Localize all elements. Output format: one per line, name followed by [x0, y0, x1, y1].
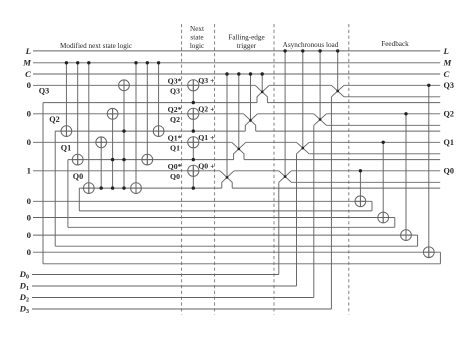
svg-text:Q2: Q2 [444, 110, 454, 119]
wire Q2 row [33, 113, 244, 115]
wire Q1 row [33, 141, 232, 143]
M control wire to XOR on aux-0B at x=88.8 [88, 63, 90, 194]
feedback wire Q3 tap vertical [428, 85, 430, 257]
svg-text:Q3: Q3 [39, 86, 49, 95]
wire return row 2 [55, 245, 417, 247]
control dot on L x=302.8 [301, 49, 304, 52]
wire C [33, 73, 440, 75]
riser wire aux-3B left corner [42, 103, 44, 264]
feedback wire Q2 tap vertical [405, 114, 407, 241]
svg-text:state: state [190, 33, 203, 41]
wire return row 1 [68, 226, 395, 228]
toffoli column for Q3+: vertical wire [123, 80, 125, 188]
XOR target (M right trio) on aux-2B [153, 126, 164, 137]
M control wire (right trio) to XOR on aux-2B at x=158.6 [158, 63, 160, 137]
C control wire for falling-edge swap Q0 [226, 74, 228, 177]
wire aux-3B (feedback line) [43, 102, 257, 104]
section divider dashed 2 [214, 24, 216, 315]
feedback hook Q3 right edge [439, 252, 441, 264]
svg-text:0: 0 [27, 137, 32, 147]
svg-text:M: M [22, 58, 32, 68]
XOR target on Q3 row (next state logic) [119, 80, 130, 91]
svg-text:0: 0 [27, 80, 32, 90]
junction dot falling-edge X Q2 [249, 119, 252, 122]
wire D1 [32, 285, 297, 287]
M control wire to XOR on aux-2B at x=66.4 [65, 63, 67, 137]
junction dot async X Q0 [284, 175, 287, 178]
control dot on C x=262.2 [261, 72, 264, 75]
svg-text:logic: logic [190, 42, 204, 50]
control dot on aux-1B for Q2+ toffoli [111, 158, 114, 161]
svg-text:Q3: Q3 [444, 81, 454, 90]
XOR target (M right trio) on aux-1B [142, 154, 153, 165]
svg-text:L: L [25, 46, 31, 56]
control dot on L x=337.7 [336, 49, 339, 52]
falling-edge swap X gate Q2 [244, 114, 258, 131]
riser wire D3 to async-load X [330, 97, 332, 309]
toffoli column for Q2+: vertical wire [112, 108, 114, 188]
section divider dashed 1 [181, 24, 183, 315]
control dot M x=158.6 [157, 61, 160, 64]
wire aux-0A (async X output) [291, 181, 440, 183]
next-state XOR U3 on Q3 row (big) [192, 80, 194, 103]
control dot M x=66.4 [65, 61, 68, 64]
wire aux-0B (feedback line) [79, 187, 222, 189]
svg-text:Q3*: Q3* [168, 76, 182, 85]
XOR target on Q1 row (next state logic) [96, 137, 107, 148]
C control wire for falling-edge swap Q3 [261, 74, 263, 92]
svg-text:Next: Next [190, 25, 204, 33]
svg-text:Q1: Q1 [61, 143, 71, 152]
riser wire aux-0B left corner [78, 188, 80, 211]
L control wire for async-load swap Q0 [284, 51, 286, 177]
fanout dot on aux-0B below XOR U0 [192, 186, 195, 189]
wire aux-2A (async X output) [326, 124, 440, 126]
M control wire (right trio) to XOR on aux-0B at x=136.0 [135, 63, 137, 194]
control dot on aux-0B for Q1+ toffoli [100, 186, 103, 189]
junction dot async X Q3 [336, 90, 339, 93]
junction dot falling-edge X Q1 [238, 148, 241, 151]
C control wire for falling-edge swap Q1 [238, 74, 240, 149]
wire Q0 row [33, 170, 220, 172]
wire Q3 row [33, 84, 255, 86]
control dot on aux-2B for Q3+ toffoli [122, 129, 125, 132]
svg-text:Q3 +: Q3 + [198, 76, 215, 85]
feedback control dot on Q0 row [359, 169, 362, 172]
feedback XOR target on ancilla 2 row [401, 230, 412, 241]
toffoli column for Q1+: vertical wire [100, 137, 102, 188]
C control wire for falling-edge swap Q2 [250, 74, 252, 120]
svg-text:Q1 +: Q1 + [198, 133, 215, 142]
svg-text:Q1: Q1 [444, 138, 454, 147]
svg-text:M: M [443, 58, 453, 68]
async-load swap X gate Q3 [331, 85, 344, 97]
next-state XOR U1 on Q1 row (big) [192, 137, 194, 160]
feedback wire Q0 tap vertical [359, 171, 361, 207]
wire ancilla 0 row [33, 200, 372, 202]
svg-text:Q2: Q2 [170, 115, 180, 124]
svg-text:1: 1 [27, 166, 31, 176]
control dot on aux-0B for Q3+ toffoli [122, 186, 125, 189]
junction dot falling-edge X Q3 [261, 91, 264, 94]
svg-text:Q0: Q0 [444, 167, 454, 176]
control dot M x=136.0 [134, 61, 137, 64]
L control wire for async-load swap Q3 [337, 51, 339, 91]
XOR target (M right trio) on aux-0B [131, 183, 142, 194]
junction dot falling-edge X Q0 [226, 176, 229, 179]
wire return row 3 [43, 263, 440, 265]
control dot on L x=320.1 [318, 49, 321, 52]
svg-text:Asynchronous load: Asynchronous load [283, 41, 339, 49]
XOR target (M left trio) on aux-2B [61, 126, 72, 137]
wire D0 [32, 274, 279, 276]
L control wire for async-load swap Q2 [319, 51, 321, 120]
svg-text:Q1*: Q1* [168, 133, 182, 142]
riser wire D0 to async-load X [278, 182, 280, 274]
M control wire (right trio) to XOR on aux-1B at x=147.3 [146, 63, 148, 165]
control dot M x=147.3 [146, 61, 149, 64]
feedback control dot on Q1 row [382, 141, 385, 144]
wire aux-1B (feedback line) [68, 159, 234, 161]
riser wire D2 to async-load X [313, 125, 315, 297]
feedback hook Q0 right edge [371, 201, 373, 211]
feedback XOR target on ancilla 1 row [378, 212, 389, 223]
feedback hook Q2 right edge [417, 235, 419, 246]
control dot on aux-1B for Q3+ toffoli [122, 158, 125, 161]
fanout dot on aux-1B below XOR U1 [192, 158, 195, 161]
riser wire aux-1B left corner [67, 160, 69, 228]
svg-text:Q0: Q0 [170, 172, 180, 181]
riser wire D1 to async-load X [296, 154, 298, 286]
XOR target (M left trio) on aux-0B [83, 183, 94, 194]
svg-text:Q3: Q3 [170, 87, 180, 96]
control dot on C x=238.8 [237, 72, 240, 75]
feedback XOR target on ancilla 3 row [423, 247, 434, 258]
falling-edge swap X gate Q1 [232, 142, 246, 159]
svg-text:0: 0 [27, 196, 32, 206]
feedback control dot on Q2 row [404, 112, 407, 115]
svg-text:L: L [443, 46, 449, 56]
section divider dashed 4 [348, 24, 350, 315]
svg-text:Q2 +: Q2 + [198, 105, 215, 114]
junction dot async X Q2 [319, 118, 322, 121]
control dot M x=88.8 [87, 61, 90, 64]
junction dot async X Q1 [302, 147, 305, 150]
XOR target on Q2 row (next state logic) [107, 108, 118, 119]
wire D3 [32, 308, 331, 310]
wire aux-2B (feedback line) [55, 130, 245, 132]
wire ancilla 1 row [33, 217, 395, 219]
svg-text:0: 0 [27, 212, 32, 222]
control dot on L x=285.1 [283, 49, 286, 52]
feedback XOR target on ancilla 0 row [355, 196, 366, 207]
feedback wire Q1 tap vertical [382, 142, 384, 223]
svg-text:Feedback: Feedback [381, 40, 409, 48]
wire return row 0 [79, 210, 372, 212]
control dot on aux-0B for Q2+ toffoli [111, 186, 114, 189]
svg-text:C: C [444, 69, 450, 79]
control dot on C x=227.0 [225, 72, 228, 75]
svg-text:Q2*: Q2* [168, 105, 182, 114]
async-load swap X gate Q2 [314, 114, 327, 126]
M control wire to XOR on aux-1B at x=77.7 [77, 63, 79, 165]
next-state XOR U0 on Q0 row (big) [192, 165, 194, 188]
feedback control dot on Q3 row [427, 84, 430, 87]
svg-text:trigger: trigger [237, 42, 257, 50]
falling-edge swap X gate Q3 [255, 85, 269, 102]
wire D2 [32, 297, 314, 299]
section divider dashed 3 [273, 24, 275, 315]
wire aux-1A (async X output) [309, 153, 440, 155]
wire ancilla 2 row [33, 234, 418, 236]
svg-text:0: 0 [27, 230, 32, 240]
wire aux-3A (async X output) [344, 96, 440, 98]
svg-text:Modified next state logic: Modified next state logic [60, 42, 132, 50]
wire ancilla 3 row [33, 251, 440, 253]
wire L [33, 50, 440, 52]
fanout dot on aux-2B below XOR U2 [192, 129, 195, 132]
svg-text:Q2: Q2 [49, 115, 59, 124]
svg-text:Q0 +: Q0 + [198, 162, 215, 171]
svg-text:Falling-edge: Falling-edge [228, 33, 264, 41]
async-load swap X gate Q1 [297, 142, 310, 154]
svg-text:Q1: Q1 [170, 144, 180, 153]
L control wire for async-load swap Q1 [302, 51, 304, 148]
XOR target (M left trio) on aux-1B [72, 154, 83, 165]
svg-text:Q0*: Q0* [168, 162, 182, 171]
falling-edge swap X gate Q0 [220, 171, 234, 188]
next-state XOR U2 on Q2 row (big) [192, 108, 194, 131]
feedback hook Q1 right edge [394, 218, 396, 228]
svg-text:Q0: Q0 [73, 172, 83, 181]
control dot M x=77.7 [76, 61, 79, 64]
svg-text:C: C [25, 69, 31, 79]
riser wire aux-2B left corner [54, 131, 56, 246]
control dot on C x=250.5 [249, 72, 252, 75]
svg-text:0: 0 [27, 247, 32, 257]
fanout dot on aux-3B below XOR U3 [192, 101, 195, 104]
async-load swap X gate Q0 [279, 171, 292, 183]
svg-text:0: 0 [27, 109, 32, 119]
wire M [33, 62, 440, 64]
